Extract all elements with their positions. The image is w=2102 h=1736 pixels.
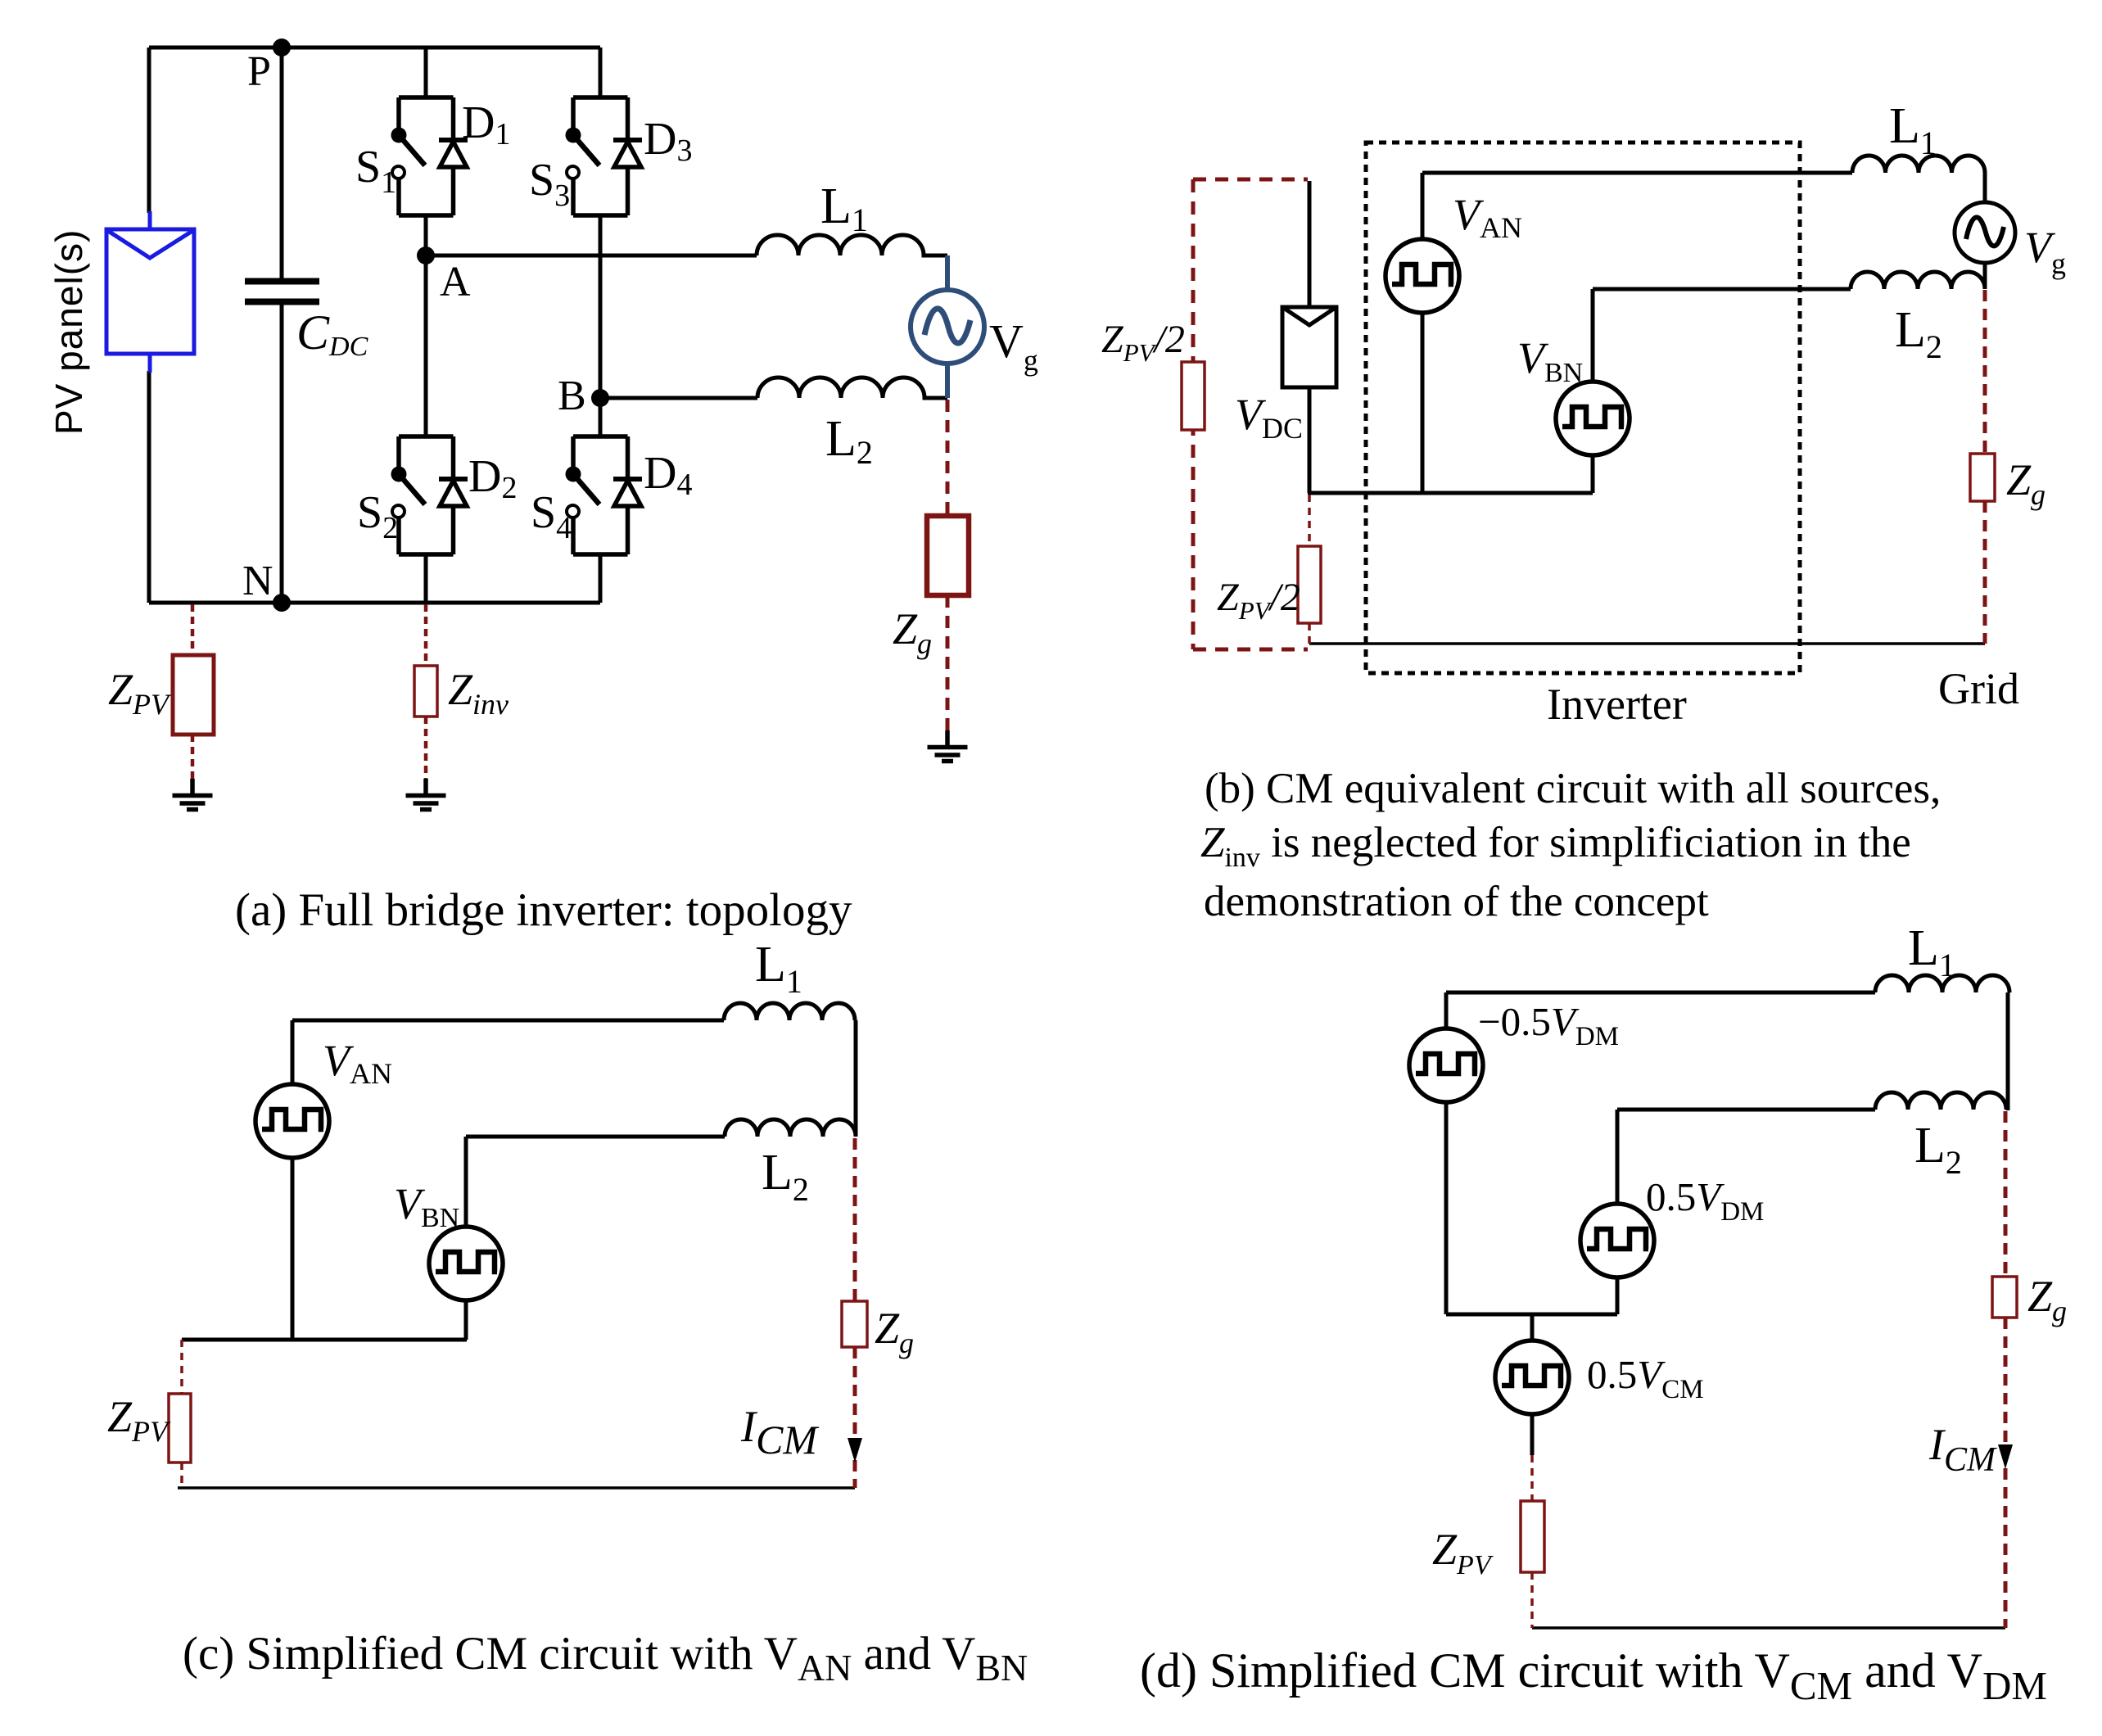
- svg-text:(a) Full bridge inverter: topo: (a) Full bridge inverter: topology: [235, 884, 852, 936]
- svg-text:demonstration of the concept: demonstration of the concept: [1204, 878, 1709, 925]
- svg-text:Grid: Grid: [1938, 664, 2019, 713]
- svg-text:Zinv is neglected for simplifi: Zinv is neglected for simplificiation in…: [1200, 819, 1911, 873]
- svg-text:N: N: [242, 558, 273, 604]
- svg-text:PV panel(s): PV panel(s): [47, 229, 90, 435]
- svg-text:P: P: [247, 48, 271, 95]
- svg-text:A: A: [440, 259, 471, 305]
- svg-text:B: B: [558, 373, 586, 419]
- svg-text:(c) Simplified CM circuit with: (c) Simplified CM circuit with VAN and V…: [183, 1628, 1028, 1689]
- svg-text:(b) CM equivalent circuit with: (b) CM equivalent circuit with all sourc…: [1205, 765, 1941, 812]
- svg-text:Inverter: Inverter: [1547, 680, 1687, 729]
